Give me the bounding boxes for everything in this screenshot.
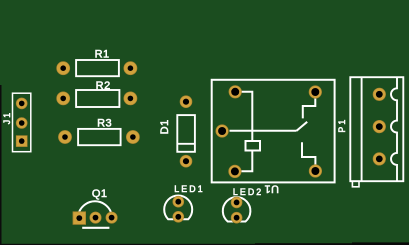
diode D1 (159, 96, 195, 168)
R1 body (76, 60, 119, 76)
LED2 (223, 187, 264, 223)
D1 pad top (180, 96, 192, 108)
label LED1 (174, 184, 204, 194)
R1 pad right (124, 62, 137, 75)
svg-text:D1: D1 (159, 119, 171, 134)
svg-text:R1: R1 (95, 49, 110, 61)
R3 pad right (126, 130, 139, 143)
U1 pad mid-left (216, 125, 229, 138)
Q1 pad 2 (90, 212, 101, 223)
LED1 (164, 184, 205, 222)
U1 top contact wire (303, 95, 316, 118)
P1 bottom tab (352, 181, 359, 187)
label U1 (264, 182, 279, 194)
resistor R2 (57, 80, 137, 107)
U1 coil wire bottom (242, 151, 253, 172)
svg-text:P1: P1 (337, 118, 347, 133)
P1 pad 1 (373, 88, 386, 101)
label R1 (95, 49, 110, 61)
U1 coil box (246, 141, 261, 151)
U1 pad top-right (309, 86, 322, 99)
Q1 arc outline (79, 201, 111, 212)
R2 pad right (124, 92, 137, 105)
label Q1 (92, 188, 108, 200)
U1 bottom contact wire (302, 142, 315, 168)
resistor R1 (57, 49, 137, 77)
LED2 pad bottom (231, 212, 242, 223)
svg-text:LED1: LED1 (174, 184, 204, 194)
R2 pad left (57, 92, 70, 105)
label D1 (159, 119, 171, 134)
label R2 (96, 80, 111, 92)
R1 pad left (57, 62, 70, 75)
R2 body (76, 90, 119, 107)
P1 inner right line with notches (391, 77, 397, 181)
svg-text:U1: U1 (264, 182, 279, 194)
Q1 flat line (82, 227, 109, 229)
label P1 (337, 118, 347, 133)
U1 switch blade (297, 122, 308, 131)
svg-text:LED2: LED2 (233, 187, 263, 197)
connector P1 (337, 77, 404, 187)
U1 pad bottom-right (309, 165, 322, 178)
label R3 (97, 117, 112, 129)
P1 inner left line (361, 77, 363, 181)
resistor R3 (58, 117, 139, 145)
U1 pad bottom-left (229, 165, 242, 178)
D1 pad bottom (180, 155, 192, 167)
U1 coil wire top (241, 92, 252, 141)
transistor Q1 (73, 188, 117, 228)
svg-text:Q1: Q1 (92, 188, 108, 200)
P1 pad 2 (373, 120, 386, 133)
svg-text:J1: J1 (2, 111, 12, 125)
J1 pad 1 (16, 98, 27, 109)
LED1 pad top (173, 196, 184, 207)
R3 pad left (58, 130, 71, 143)
U1 outline (212, 80, 335, 183)
R3 body (78, 129, 121, 145)
board edge shadow bottom (0, 244, 409, 245)
LED1 circle outline (164, 196, 192, 220)
Q1 pad 1 (square) (73, 212, 86, 225)
P1 pad 3 (373, 153, 386, 166)
LED2 circle outline (223, 197, 251, 221)
connector J1 (2, 93, 31, 152)
U1 pad top-left (229, 86, 242, 99)
LED2 pad top (231, 197, 242, 208)
D1 body (177, 115, 195, 152)
J1 outline (13, 93, 31, 152)
label J1 (2, 111, 12, 125)
D1 cathode band (177, 143, 195, 145)
svg-text:R3: R3 (97, 117, 112, 129)
P1 outline (350, 77, 403, 181)
board edge shadow left (0, 85, 2, 245)
label LED2 (233, 187, 263, 197)
Q1 pad 3 (106, 212, 117, 223)
J1 pad 2 (16, 118, 27, 129)
LED1 pad bottom (173, 211, 184, 222)
relay U1 (212, 80, 335, 195)
U1 common wire (230, 130, 297, 132)
svg-text:R2: R2 (96, 80, 111, 92)
J1 pad 3 (square) (16, 136, 27, 147)
